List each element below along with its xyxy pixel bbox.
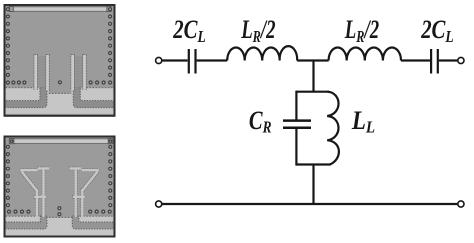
svg-text:LL: LL	[351, 106, 375, 137]
svg-text:2CL: 2CL	[420, 15, 453, 46]
svg-text:LR/2: LR/2	[344, 15, 379, 46]
svg-text:CR: CR	[249, 106, 272, 137]
svg-text:2CL: 2CL	[173, 15, 206, 46]
svg-text:LR/2: LR/2	[240, 15, 275, 46]
